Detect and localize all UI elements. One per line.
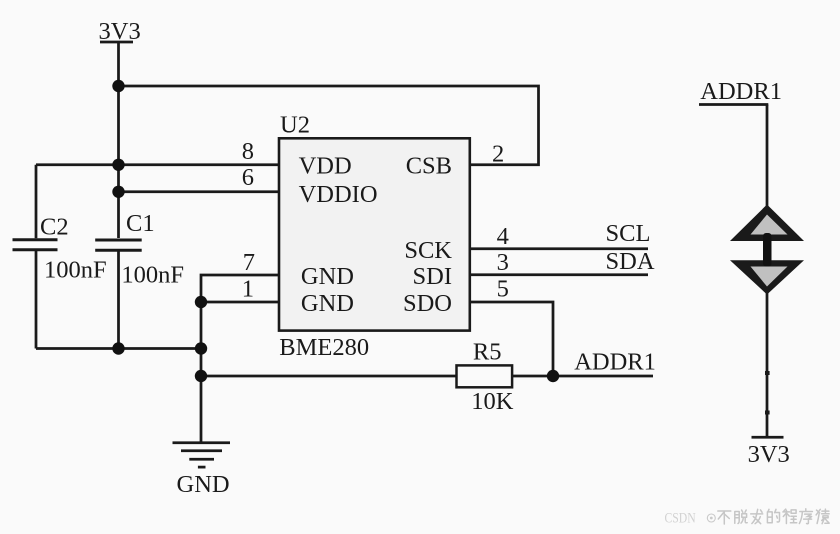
svg-text:100nF: 100nF xyxy=(121,262,184,289)
svg-text:3V3: 3V3 xyxy=(748,441,790,468)
svg-text:1: 1 xyxy=(242,275,254,302)
svg-text:CSB: CSB xyxy=(406,153,452,180)
svg-text:4: 4 xyxy=(497,223,509,250)
svg-text:SDA: SDA xyxy=(606,248,655,275)
svg-text:3: 3 xyxy=(497,249,509,276)
svg-text:ADDR1: ADDR1 xyxy=(700,78,782,105)
svg-text:SDI: SDI xyxy=(413,263,452,290)
svg-text:BME280: BME280 xyxy=(279,334,369,361)
svg-text:VDD: VDD xyxy=(299,153,352,180)
svg-text:SCL: SCL xyxy=(606,220,651,247)
svg-text:ADDR1: ADDR1 xyxy=(574,348,656,375)
svg-text:C2: C2 xyxy=(40,214,69,241)
svg-text:CSDN: CSDN xyxy=(665,509,696,526)
svg-text:7: 7 xyxy=(243,249,255,276)
svg-text:C1: C1 xyxy=(126,210,155,237)
svg-text:100nF: 100nF xyxy=(44,257,107,284)
svg-text:SCK: SCK xyxy=(404,237,452,264)
svg-text:U2: U2 xyxy=(280,112,310,139)
svg-text:GND: GND xyxy=(301,290,354,317)
svg-text:10K: 10K xyxy=(471,388,514,415)
svg-text:GND: GND xyxy=(301,263,354,290)
svg-text:5: 5 xyxy=(497,275,509,302)
svg-text:2: 2 xyxy=(492,141,504,168)
svg-text:GND: GND xyxy=(177,471,230,498)
svg-text:6: 6 xyxy=(242,164,254,191)
svg-text:VDDIO: VDDIO xyxy=(299,181,378,208)
svg-text:SDO: SDO xyxy=(403,290,452,317)
svg-text:3V3: 3V3 xyxy=(99,18,141,45)
svg-text:R5: R5 xyxy=(473,339,502,366)
svg-text:8: 8 xyxy=(242,138,254,165)
